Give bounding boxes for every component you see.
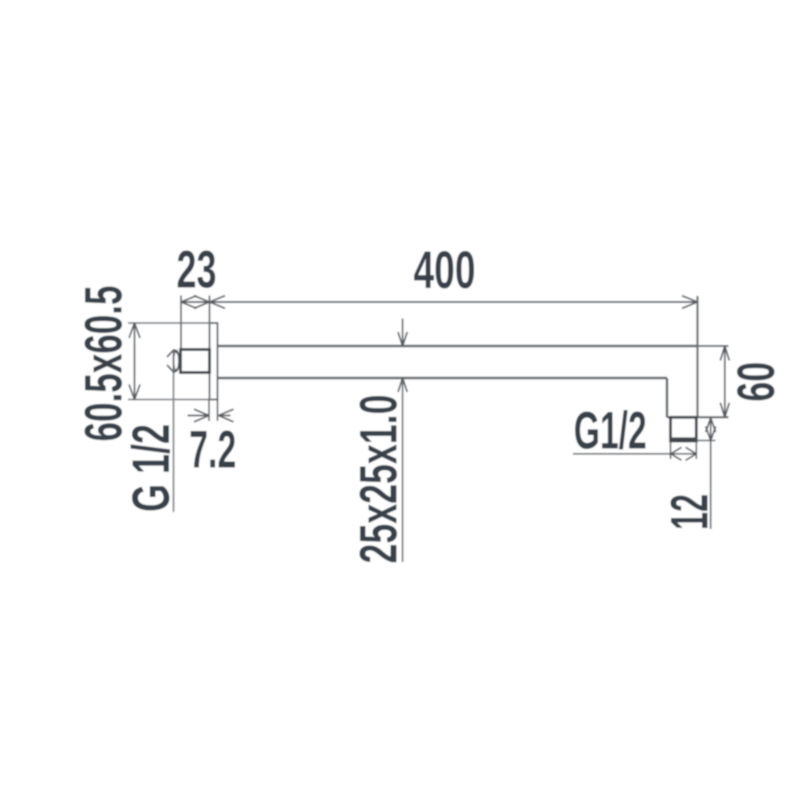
arrow 400 right: [682, 296, 698, 309]
extension line left of 23: [180, 296, 182, 350]
arrow G1/2 up: [167, 350, 181, 358]
arrow 60.5 down: [129, 385, 140, 400]
arrow 12 up: [706, 418, 716, 432]
dimension line 12: [710, 417, 712, 529]
arrow nipple width right: [686, 447, 697, 460]
extension line 7.2 right: [217, 400, 219, 422]
extension line 7.2 left: [208, 400, 210, 422]
arrow 60 up: [720, 346, 729, 361]
svg-text:G 1/2: G 1/2: [122, 424, 181, 512]
svg-text:25x25x1.0: 25x25x1.0: [350, 395, 409, 564]
arrow 7.2 right: [219, 409, 234, 422]
svg-text:23: 23: [177, 241, 217, 300]
threaded nipple right: [671, 417, 697, 441]
extension line between 23 and 400: [209, 296, 211, 324]
threaded nipple left: [181, 350, 210, 373]
wall flange plate: [210, 323, 218, 400]
svg-text:12: 12: [661, 494, 720, 530]
nipple side extension left: [670, 442, 672, 460]
dimension 7.2 left tail: [188, 415, 210, 417]
svg-text:400: 400: [414, 241, 476, 300]
elbow outer edge / 400 extension: [696, 296, 698, 417]
svg-text:60: 60: [727, 362, 786, 402]
thread end ellipse: [174, 350, 179, 371]
extension 12 bottom: [696, 440, 715, 442]
leader 25x25x1.0 lower: [402, 378, 404, 562]
extension 60 top (tube top prolongation): [698, 345, 729, 347]
arm tube top line: [218, 345, 698, 347]
svg-text:7.2: 7.2: [189, 421, 236, 480]
arrow G1/2 down: [167, 365, 181, 373]
nipple right thick bottom: [671, 437, 697, 441]
dimension line 60: [724, 346, 726, 417]
dimension 7.2 right tail: [219, 415, 231, 417]
arrow 7.2 left: [194, 409, 209, 422]
extension line 60.5 top: [128, 322, 218, 324]
arrow 23 right: [194, 296, 210, 309]
arrow 25x25 down: [398, 332, 407, 346]
arrow 25x25 up: [398, 378, 407, 392]
leader 25x25x1.0 upper: [402, 319, 404, 347]
leader line G 1/2 left: [173, 351, 175, 512]
extension line 60.5 bottom: [128, 399, 219, 401]
svg-text:G1/2: G1/2: [574, 402, 647, 461]
arrow nipple width left: [671, 447, 682, 460]
dimension line 23/400: [181, 301, 698, 303]
arrow 23 left: [181, 296, 197, 309]
arrow 400 left: [210, 296, 226, 309]
nipple side extension right: [695, 442, 697, 460]
elbow inner edge: [666, 378, 668, 417]
leader G1/2 right: [573, 453, 696, 455]
elbow bottom / 60-12 extension: [667, 416, 729, 418]
svg-text:60.5x60.5: 60.5x60.5: [75, 286, 134, 442]
arm tube bottom line: [218, 377, 668, 379]
arrow 60.5 up: [129, 323, 140, 338]
arrow 12 down: [706, 427, 716, 441]
dimension line 60.5: [134, 323, 136, 400]
arrow 60 down: [720, 403, 729, 418]
